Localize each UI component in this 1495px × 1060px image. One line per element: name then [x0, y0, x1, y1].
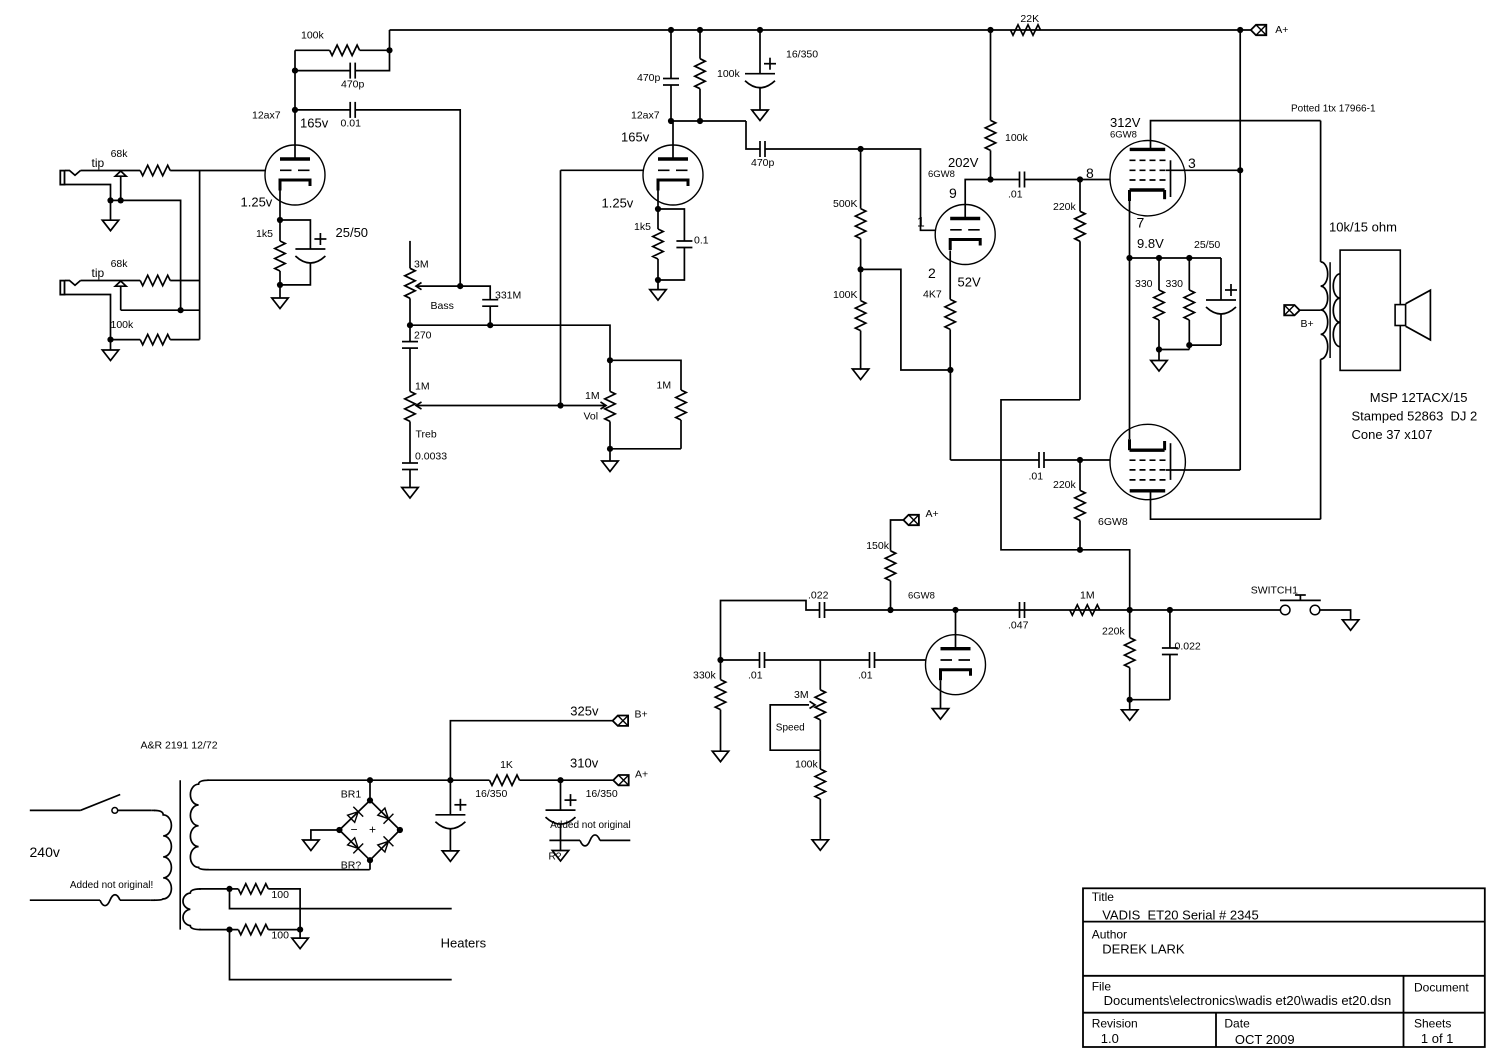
wire to R4 — [295, 49, 330, 51]
wire V2 grid drop — [560, 170, 562, 405]
transformer T1 secondary — [1333, 274, 1340, 347]
node V3 plate — [987, 176, 993, 182]
ground C5 — [752, 110, 768, 121]
svg-text:Documents\electronics\wadis et: Documents\electronics\wadis et20\wadis e… — [1104, 993, 1392, 1008]
resistor R7 100k plate — [699, 30, 701, 59]
wiper Vol arrow — [601, 402, 607, 409]
fuse squiggle C20 — [580, 835, 600, 846]
wire 1M par bottom — [610, 448, 681, 450]
wire heater line 2 — [230, 930, 452, 980]
svg-text:0.01: 0.01 — [341, 118, 362, 130]
wire 3M top stub — [409, 241, 411, 268]
capacitor C19 16/350 electrolytic — [449, 780, 451, 815]
node cathode out — [947, 367, 953, 373]
wire added line — [549, 839, 580, 841]
svg-text:312V: 312V — [1110, 115, 1141, 130]
wire V5 cathode lead — [1129, 258, 1131, 439]
svg-text:Date: Date — [1224, 1017, 1250, 1031]
node grid leak join — [1077, 547, 1083, 553]
svg-text:Bass: Bass — [431, 300, 454, 312]
ground speed — [812, 840, 828, 851]
wire V2 plate lead — [672, 121, 674, 159]
svg-text:6GW8: 6GW8 — [1098, 516, 1128, 528]
wire plate node — [671, 120, 746, 122]
node feedback — [292, 68, 298, 74]
resistor R9 1M — [676, 390, 686, 420]
resistor R11 100K — [860, 269, 862, 300]
capacitor C8 331M — [482, 299, 498, 301]
resistor R24 100 — [230, 888, 239, 890]
ground treble — [402, 488, 418, 499]
node vol bottom — [607, 446, 613, 452]
transformer T2 heater secondary — [183, 889, 201, 930]
wire R23 to node — [520, 779, 561, 781]
jack J1 tip-switch arrow — [115, 171, 126, 176]
wire switch to ground — [1320, 610, 1351, 620]
capacitor C18 0.022 — [1169, 610, 1171, 648]
svg-text:.01: .01 — [1029, 471, 1044, 483]
pentode V4 6GW8 upper — [1110, 141, 1185, 216]
wire J1 tip to R1 — [81, 170, 141, 172]
resistor R6 22K — [1011, 25, 1041, 35]
wiper Treble arrow — [416, 402, 422, 409]
wire node8 to pentode grid — [1080, 179, 1110, 181]
ground V6 cathode — [932, 709, 948, 720]
triode V6 6GW8 tremolo — [926, 635, 986, 695]
wire V5 plate lead — [1151, 491, 1321, 519]
svg-text:100k: 100k — [795, 759, 819, 771]
svg-text:100k: 100k — [301, 30, 325, 42]
resistor R5 1k5 — [279, 220, 281, 241]
svg-text:.047: .047 — [1008, 620, 1029, 632]
svg-text:BR?: BR? — [341, 860, 362, 872]
wire added line 2 — [600, 839, 630, 841]
node bass wiper — [457, 283, 463, 289]
ground C19 — [442, 851, 458, 862]
wire C14 left jog — [721, 601, 820, 661]
svg-text:VADIS ET20 Serial # 2345: VADIS ET20 Serial # 2345 — [1102, 908, 1259, 923]
wire cathode rail — [1130, 257, 1222, 259]
node 150k bottom — [887, 607, 893, 613]
node C8 bottom — [487, 322, 493, 328]
svg-text:A+: A+ — [1275, 24, 1288, 36]
svg-text:Stamped 52863 DJ 2: Stamped 52863 DJ 2 — [1352, 409, 1478, 424]
resistor R20 100k — [819, 750, 821, 769]
speaker driver — [1395, 305, 1406, 326]
svg-text:Author: Author — [1092, 928, 1127, 942]
wire top supply rail — [390, 29, 1251, 31]
svg-text:Cone 37 x107: Cone 37 x107 — [1352, 427, 1433, 442]
wire bridge bottom — [369, 860, 371, 870]
svg-text:1M: 1M — [657, 380, 672, 392]
transformer T2 core — [179, 780, 181, 929]
node bass bottom — [407, 322, 413, 328]
svg-text:1 of 1: 1 of 1 — [1421, 1031, 1454, 1046]
node shield junction — [178, 307, 184, 313]
svg-text:202V: 202V — [948, 155, 979, 170]
wire HV bottom — [207, 869, 370, 871]
node R10/R11 — [858, 266, 864, 272]
ground C20 — [552, 851, 568, 862]
input jack J2 — [60, 281, 64, 295]
triode V2 12ax7 — [643, 145, 703, 205]
capacitor C20 16/350 electrolytic — [560, 780, 562, 810]
wire V2 grid — [561, 169, 644, 171]
switch SWITCH1 pushbutton — [1280, 605, 1290, 615]
resistor R14 220k — [1079, 180, 1081, 212]
svg-text:tip: tip — [92, 266, 105, 280]
svg-text:100k: 100k — [717, 68, 741, 80]
node trem out — [1127, 607, 1133, 613]
capacitor C13 .01 — [1038, 452, 1040, 468]
capacitor C7 0.1 — [676, 240, 692, 242]
transformer T1 primary — [1320, 121, 1322, 262]
ground R11 — [852, 369, 868, 380]
svg-text:470p: 470p — [751, 157, 775, 169]
svg-text:330: 330 — [1166, 278, 1184, 290]
svg-text:8: 8 — [1086, 165, 1094, 181]
resistor R2 68k — [140, 275, 170, 285]
wire to V5 grid — [1080, 459, 1110, 461]
potentiometer Vol 1M — [609, 360, 611, 391]
wire J2 tip to R2 — [81, 280, 141, 282]
svg-text:2: 2 — [928, 265, 936, 281]
wire C3 bottom — [280, 264, 310, 285]
wire A+ to 150k — [891, 520, 904, 551]
speaker enclosure box — [1340, 250, 1400, 370]
wire tone bus — [410, 325, 610, 360]
wire heater top — [199, 888, 230, 890]
ground R22 — [1129, 700, 1131, 710]
wire osc bus — [825, 609, 1281, 611]
svg-text:100k: 100k — [1005, 132, 1029, 144]
svg-text:+: + — [369, 823, 376, 837]
svg-text:6GW8: 6GW8 — [928, 169, 955, 180]
wire C2 left — [295, 109, 350, 111]
wire rail to R23 — [450, 779, 489, 781]
svg-text:B+: B+ — [635, 709, 648, 721]
svg-text:.01: .01 — [1008, 189, 1023, 201]
svg-text:A+: A+ — [635, 769, 648, 781]
svg-text:Speed: Speed — [776, 723, 805, 734]
svg-text:470p: 470p — [341, 79, 365, 91]
svg-text:B+: B+ — [1301, 318, 1314, 330]
node splitter input — [858, 146, 864, 152]
svg-text:68k: 68k — [111, 258, 129, 270]
capacitor C3 25/50 electrolytic — [295, 248, 325, 250]
transformer T2 primary — [154, 810, 171, 900]
ground heater — [299, 930, 301, 939]
capacitor C12 25/50 electrolytic — [1220, 258, 1222, 300]
resistor R21 1M — [1070, 605, 1100, 615]
wire V4 cathode lead — [1129, 201, 1131, 258]
node k rail 3 — [1186, 255, 1192, 261]
svg-text:325v: 325v — [570, 704, 599, 719]
node k rail 1 — [1126, 255, 1132, 261]
wire node to A+ term — [561, 779, 614, 781]
wire grid node to C15 — [721, 659, 760, 661]
resistor R15 330 — [1158, 258, 1160, 290]
wire plate node up — [294, 71, 296, 110]
svg-text:6GW8: 6GW8 — [1110, 130, 1137, 141]
svg-text:165v: 165v — [300, 116, 329, 131]
capacitor C5 16/350 electrolytic — [759, 30, 761, 74]
transformer T1 core — [1329, 262, 1331, 358]
wire to grid corner — [861, 149, 936, 230]
svg-text:0.1: 0.1 — [694, 235, 709, 247]
wire R25 to node — [268, 929, 300, 931]
svg-text:220k: 220k — [1102, 626, 1126, 638]
wire HV top — [207, 779, 370, 781]
svg-text:.01: .01 — [748, 670, 763, 682]
wire mains neutral — [30, 899, 100, 901]
wire HV rail — [370, 779, 450, 781]
node k rail 2 — [1156, 255, 1162, 261]
input jack J1 — [60, 171, 64, 185]
resistor R8 1k5 — [657, 209, 659, 229]
svg-text:6GW8: 6GW8 — [908, 591, 935, 602]
wire shield bus — [121, 200, 181, 310]
wire C3 top — [280, 220, 310, 249]
transformer T2 HV secondary — [190, 780, 209, 870]
svg-text:1K: 1K — [500, 759, 513, 771]
node R5 bottom — [277, 282, 283, 288]
terminal A+ supply — [613, 775, 629, 785]
node cap 0.022 top — [1167, 607, 1173, 613]
wire C7 bottom — [658, 248, 684, 281]
wire C11 to node8 — [1025, 179, 1081, 181]
svg-text:12ax7: 12ax7 — [631, 110, 660, 122]
jack J2 sleeve wire — [64, 295, 110, 340]
svg-text:100: 100 — [271, 930, 289, 942]
capacitor C17 .047 — [1019, 602, 1021, 618]
svg-text:Added not original!: Added not original! — [70, 880, 153, 891]
pentode V5 6GW8 lower — [1110, 424, 1185, 499]
svg-text:9: 9 — [949, 185, 957, 201]
node jack1 ground junction — [107, 197, 113, 203]
wire R3 to tie — [170, 339, 199, 341]
svg-text:7: 7 — [1137, 215, 1145, 231]
resistor R25 100 — [230, 929, 239, 931]
svg-text:1k5: 1k5 — [634, 221, 651, 233]
svg-text:MSP 12TACX/15: MSP 12TACX/15 — [1370, 390, 1468, 405]
svg-text:Added not original: Added not original — [550, 820, 631, 831]
ground V1 cathode — [279, 285, 281, 298]
wire sleeve to R3 — [111, 339, 141, 341]
svg-text:150k: 150k — [866, 540, 890, 552]
wire feedback up — [294, 50, 296, 70]
terminal B+ tap — [1284, 305, 1300, 315]
wire R24 to corner — [268, 889, 300, 930]
svg-text:0.0033: 0.0033 — [415, 451, 447, 463]
wire coupling — [746, 121, 760, 149]
svg-text:220k: 220k — [1053, 201, 1077, 213]
terminal A+ top — [1251, 25, 1267, 35]
wire to tremolo bus — [1080, 550, 1130, 610]
node R16 bottom — [1186, 342, 1192, 348]
node R7 bottom — [697, 118, 703, 124]
capacitor C2 0.01 — [349, 102, 351, 118]
wire wiper bus — [417, 405, 606, 407]
capacitor C11 .01 — [1019, 172, 1021, 188]
svg-text:Revision: Revision — [1092, 1017, 1138, 1031]
resistor R19 330k — [720, 660, 722, 680]
node rail 16/350 — [757, 27, 763, 33]
node wiper bus — [557, 402, 563, 408]
wire bridge top to HV — [369, 780, 371, 800]
wire C13 left — [950, 459, 1039, 461]
svg-text:A+: A+ — [926, 508, 939, 520]
node V1 cathode — [277, 217, 283, 223]
svg-text:1.25v: 1.25v — [241, 195, 273, 210]
svg-text:Vol: Vol — [584, 411, 599, 423]
potentiometer Bass 3M — [405, 268, 415, 298]
node V1 plate — [292, 107, 298, 113]
wire node to top rail — [389, 30, 391, 50]
svg-text:270: 270 — [414, 330, 432, 342]
jack J1 sleeve wire — [64, 185, 110, 201]
svg-text:File: File — [1092, 980, 1112, 994]
node 8 — [1077, 176, 1083, 182]
ground 330k — [712, 751, 728, 762]
wire mains live — [30, 809, 81, 811]
wire V6 plate lead — [955, 610, 957, 649]
svg-text:4K7: 4K7 — [923, 289, 942, 301]
svg-text:16/350: 16/350 — [586, 788, 618, 800]
wire R2 to grid tie — [170, 280, 199, 282]
svg-text:16/350: 16/350 — [475, 788, 507, 800]
diode BR1 SW — [348, 838, 359, 849]
bridge corner dots — [367, 797, 373, 803]
capacitor C16 .01 — [869, 652, 871, 668]
wire C15 to C16 — [765, 659, 870, 661]
svg-text:DEREK LARK: DEREK LARK — [1102, 942, 1185, 957]
ground jack J1 — [110, 200, 112, 220]
svg-text:9.8V: 9.8V — [1137, 236, 1164, 251]
svg-text:1.0: 1.0 — [1101, 1031, 1119, 1046]
svg-text:Sheets: Sheets — [1414, 1017, 1451, 1031]
svg-text:68k: 68k — [111, 148, 129, 160]
node bridge AC top — [367, 777, 373, 783]
potentiometer Speed 3M — [819, 660, 821, 690]
svg-text:16/350: 16/350 — [786, 49, 818, 61]
node screen A+ — [1237, 167, 1243, 173]
wire C1 right — [355, 50, 389, 70]
node rail 470p — [668, 27, 674, 33]
node osc grid node — [717, 657, 723, 663]
ground vol — [609, 449, 611, 461]
resistor R17 220k — [1079, 460, 1081, 490]
capacitor C15 .01 — [759, 652, 761, 668]
resistor R16 330 — [1188, 258, 1190, 290]
potentiometer Treble 1M — [405, 391, 415, 421]
svg-text:100K: 100K — [833, 289, 858, 301]
node rail 100k — [697, 27, 703, 33]
resistor R23 1K — [490, 775, 520, 785]
svg-text:OCT 2009: OCT 2009 — [1235, 1032, 1295, 1047]
node R22 bottom — [1127, 697, 1133, 703]
diode BR1 NW — [348, 812, 359, 823]
triode V3 6GW8 phase splitter — [935, 205, 995, 265]
wire R10 node to cathode node — [861, 269, 951, 370]
svg-text:310v: 310v — [570, 756, 599, 771]
node V2 plate — [668, 118, 674, 124]
wire mains neutral 2 — [120, 899, 150, 901]
svg-text:−: − — [351, 823, 358, 837]
svg-text:100k: 100k — [111, 319, 135, 331]
node rail 22K — [987, 27, 993, 33]
node heater bottom — [226, 927, 232, 933]
ground V2 cathode — [657, 280, 659, 290]
svg-text:tip: tip — [92, 156, 105, 170]
wire C1 left — [295, 70, 350, 72]
svg-text:500K: 500K — [833, 198, 858, 210]
wire tie down to R3 — [199, 281, 201, 340]
svg-text:330k: 330k — [693, 670, 717, 682]
wire C6 to splitter — [765, 148, 861, 150]
wiper Bass arrow — [416, 283, 422, 290]
svg-text:330: 330 — [1135, 278, 1153, 290]
wire V3 plate lead — [965, 180, 990, 219]
wire C16 to V6 grid — [875, 659, 926, 661]
capacitor C4 470p — [670, 30, 672, 79]
capacitor C1 470p — [349, 63, 351, 79]
wire shield bus 2 — [121, 309, 200, 311]
node V2 cathode — [655, 206, 661, 212]
node HV rail C19 — [447, 777, 453, 783]
title block frame — [1083, 888, 1485, 1047]
capacitor C10 0.0033 — [402, 462, 418, 464]
wire C13 right — [1044, 459, 1080, 461]
wire wiper to C8 — [460, 286, 490, 300]
svg-text:.01: .01 — [858, 670, 873, 682]
resistor R10 500K — [860, 149, 862, 209]
wire V5 screen — [1166, 469, 1240, 471]
svg-text:1M: 1M — [1080, 590, 1095, 602]
wire V4 screen — [1166, 169, 1240, 171]
wire cathode to C13 — [949, 370, 951, 460]
ground bridge — [303, 840, 319, 851]
terminal A+ tremolo — [903, 515, 919, 525]
svg-text:1.25v: 1.25v — [602, 196, 634, 211]
ground pentode cathodes — [1158, 350, 1160, 361]
resistor R22 220k — [1129, 610, 1131, 638]
svg-text:0.022: 0.022 — [1175, 641, 1201, 653]
wire B+ branch — [450, 721, 612, 781]
svg-text:SWITCH1: SWITCH1 — [1251, 585, 1298, 597]
svg-text:165v: 165v — [621, 130, 650, 145]
wire C7 top — [658, 209, 684, 241]
svg-text:25/50: 25/50 — [1194, 239, 1220, 251]
wire V1 plate lead — [294, 110, 296, 159]
switch mains blade — [80, 795, 120, 811]
svg-text:52V: 52V — [958, 275, 981, 290]
wire cathode to node — [279, 191, 281, 221]
node V5 grid — [1077, 457, 1083, 463]
wire B+ tap — [1300, 309, 1321, 311]
svg-text:12ax7: 12ax7 — [252, 110, 281, 122]
node rail A+ — [1237, 27, 1243, 33]
resistor R13 100k — [990, 30, 992, 120]
wire heater bottom — [199, 929, 230, 931]
node jack2 ground — [107, 337, 113, 343]
ground jack J2 — [110, 340, 112, 350]
resistor R3 100k — [140, 334, 170, 344]
wire R1 to V1 grid — [170, 170, 265, 172]
node heater top — [226, 886, 232, 892]
wire R14 jog — [1001, 400, 1080, 550]
svg-text:240v: 240v — [30, 844, 60, 860]
